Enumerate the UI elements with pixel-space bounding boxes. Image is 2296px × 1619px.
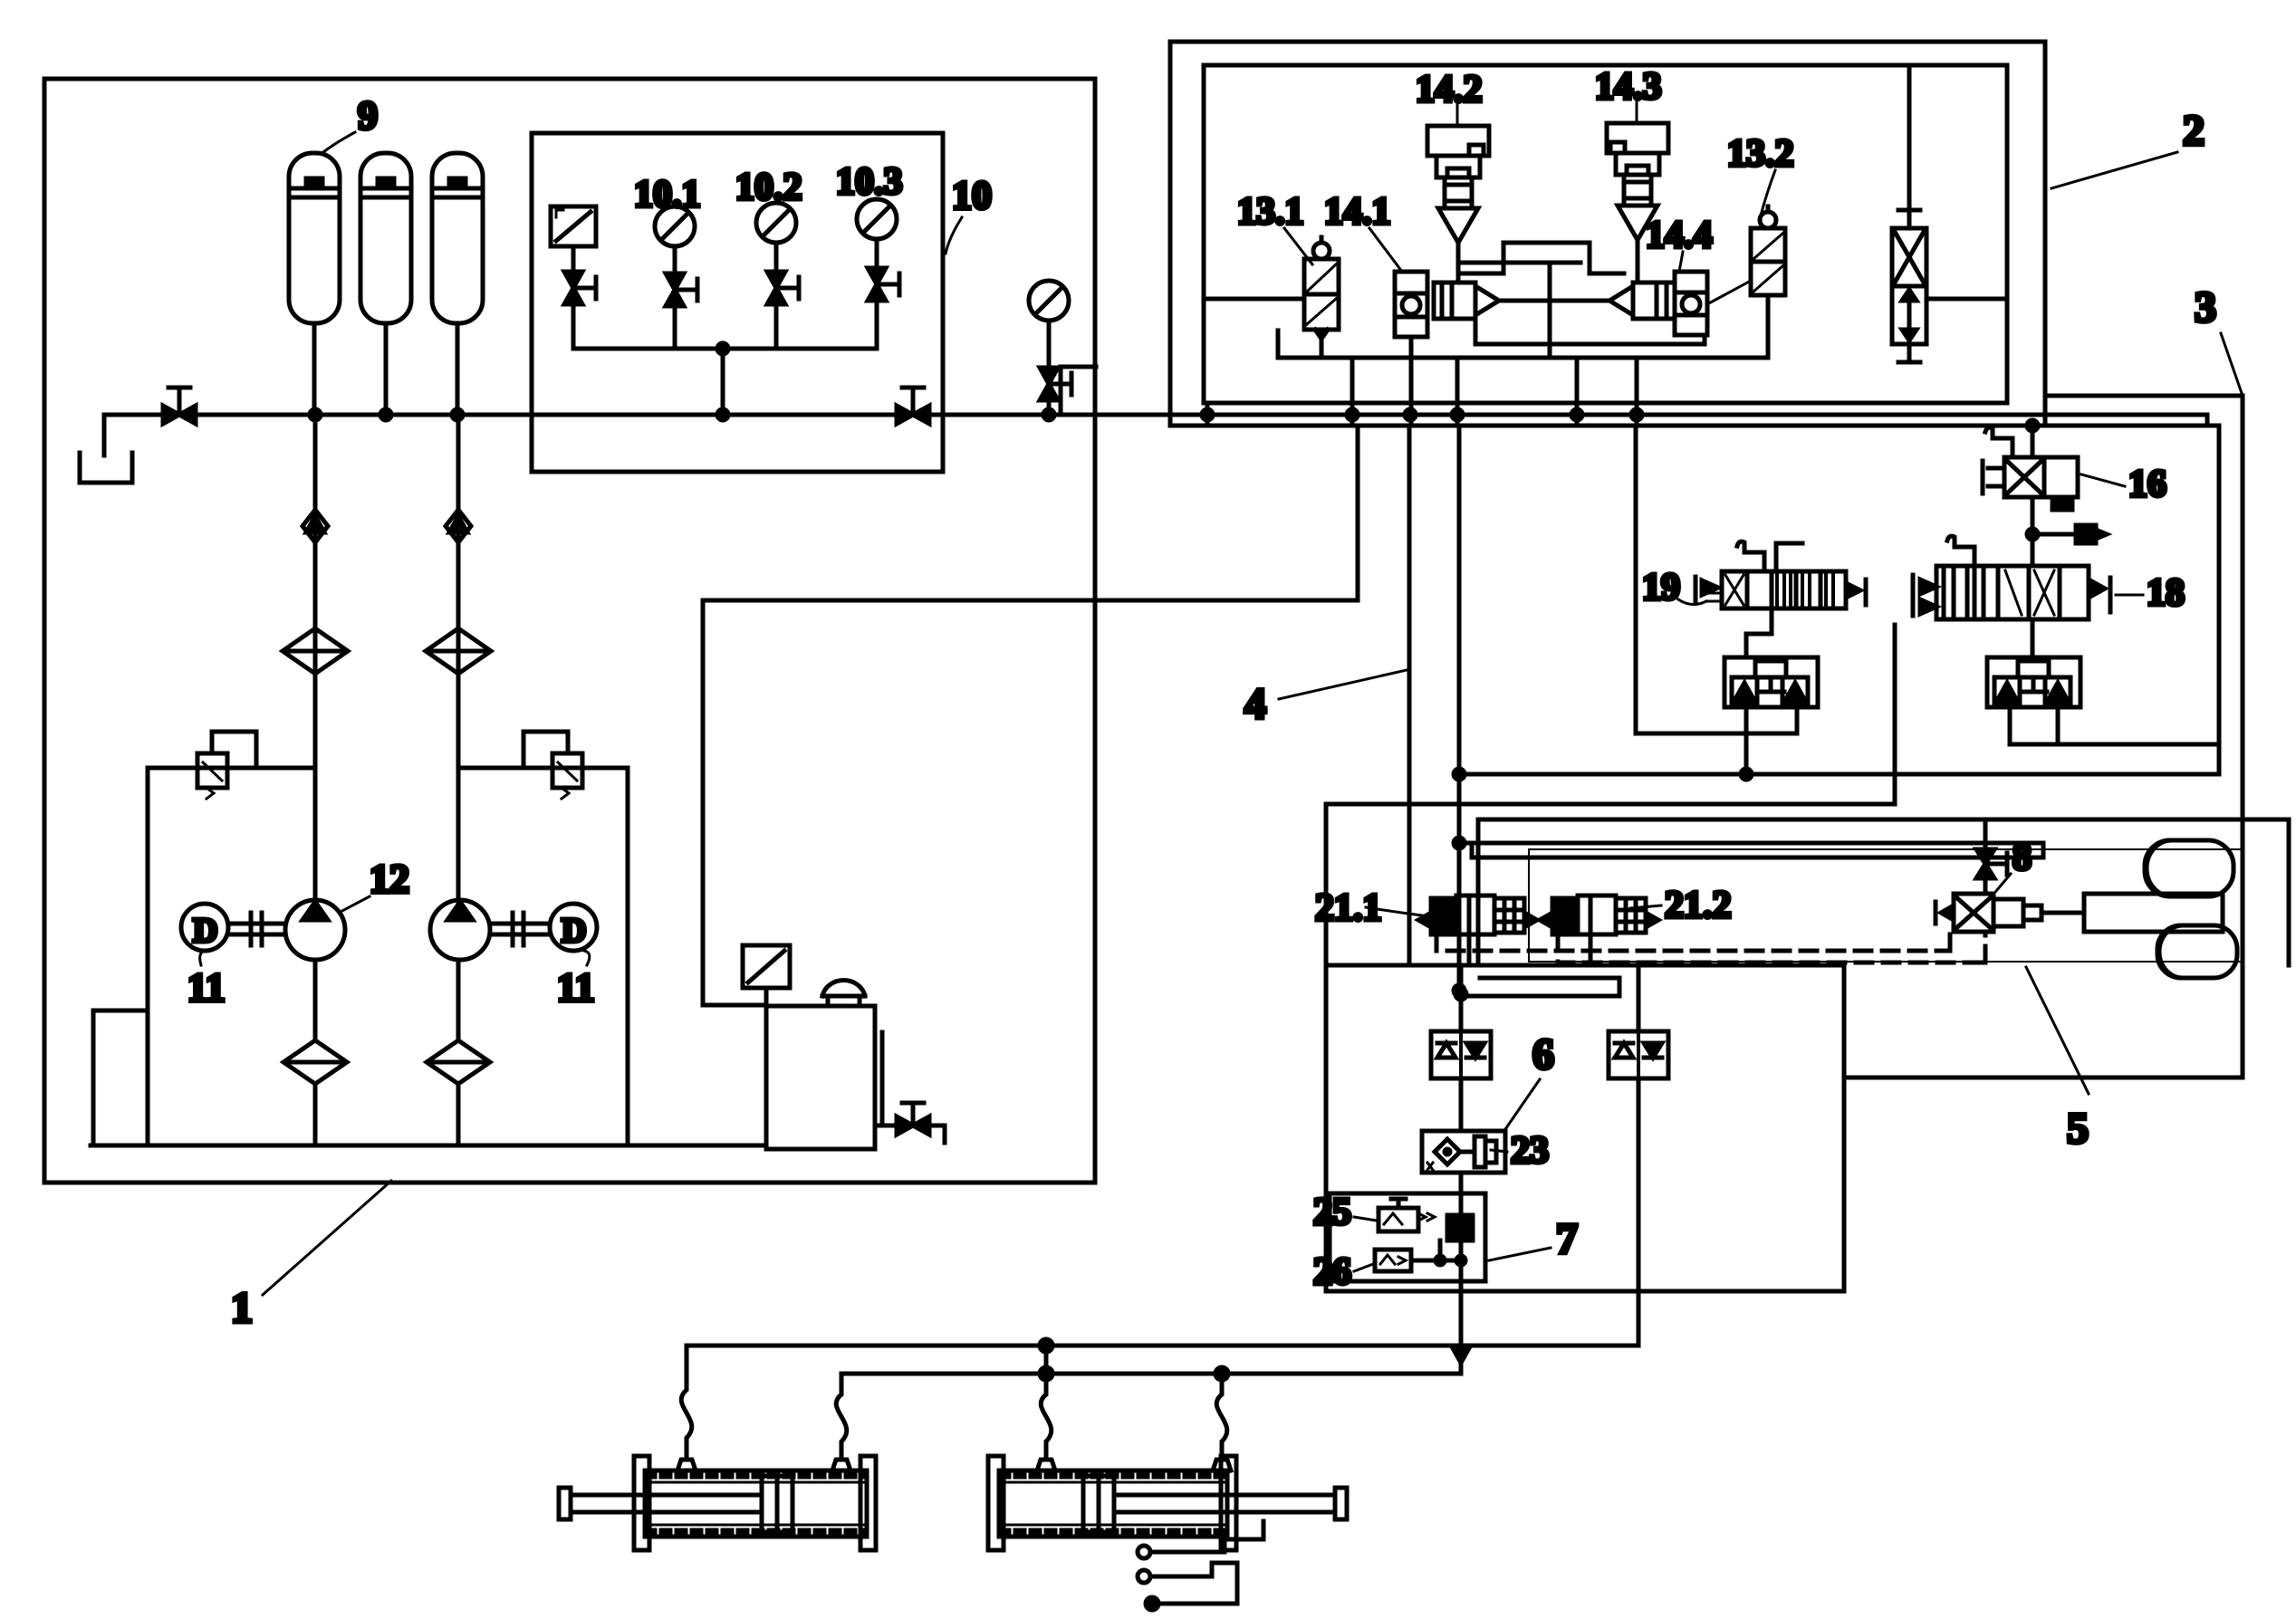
svg-text:10: 10 <box>952 173 992 217</box>
label 7 <box>1489 1215 1578 1263</box>
accumulator A2 <box>360 153 411 415</box>
pump riser left <box>313 415 318 901</box>
right cylinder piston <box>1083 1476 1114 1532</box>
accumulator A1 <box>289 153 340 415</box>
secondary bus line / box2 bottom <box>1170 424 2219 428</box>
right cylinder rod <box>1114 1488 1347 1519</box>
label 4 <box>1244 670 1407 728</box>
relief valve right <box>524 732 582 799</box>
svg-text:25: 25 <box>1313 1192 1351 1233</box>
valve 16 pilot hook <box>1985 427 2013 457</box>
center cartridge right <box>1587 283 1675 319</box>
svg-text:6: 6 <box>1532 1030 1554 1078</box>
coupling left <box>228 913 285 945</box>
standalone gauge valve <box>1040 368 1071 420</box>
lock valve of cylinder <box>1936 894 2041 932</box>
pressure filter right <box>426 628 491 674</box>
suction line left <box>313 960 318 1040</box>
svg-text:19: 19 <box>1642 567 1680 608</box>
center link pipes <box>1458 263 1638 358</box>
cartridge valve 14.1 <box>1395 272 1427 426</box>
junction dots on cylinder buses <box>1040 1339 1228 1380</box>
valve 25 <box>1379 1199 1435 1231</box>
box 5 (axle-valve box) <box>1478 819 2289 965</box>
tank return line <box>91 1144 766 1148</box>
suction drop right <box>456 1084 461 1145</box>
valve 19 top pipe <box>1776 543 1802 571</box>
drop below pair to box6 <box>1459 1083 1464 1131</box>
motor M-left <box>181 904 228 951</box>
label 9 <box>323 93 378 152</box>
coupling right <box>490 913 550 945</box>
gauge 10.2 valve <box>767 272 799 349</box>
drain funnel <box>80 453 132 483</box>
gauge 10.1 valve <box>666 273 697 349</box>
box 1 (pump station enclosure) <box>44 79 1095 1183</box>
relief valve left <box>197 732 256 799</box>
left cylinder ports <box>677 1460 850 1471</box>
left cylinder flanges <box>634 1456 876 1550</box>
label 14.1 <box>1324 191 1402 272</box>
svg-text:5: 5 <box>2067 1105 2089 1153</box>
label 26 <box>1313 1251 1373 1293</box>
hose 4 <box>1216 1374 1227 1460</box>
feed drop line 4 vertical <box>1407 426 1412 965</box>
lower link pipes in box3 <box>1454 838 2043 857</box>
valve 18 <box>1913 566 2110 619</box>
valve 19 stem <box>1746 608 1772 657</box>
main pressure bus <box>104 413 2207 417</box>
measuring plug <box>2032 525 2107 543</box>
label 3 <box>2195 283 2243 396</box>
svg-text:9: 9 <box>358 93 378 138</box>
valve 19 <box>1696 571 1866 608</box>
check valve on riser left <box>303 510 328 542</box>
label 18 <box>2116 572 2185 614</box>
hose 1 <box>681 1346 692 1460</box>
left cylinder rod <box>559 1488 762 1519</box>
center cartridge left <box>1434 283 1522 319</box>
solenoid valve 13.2 <box>1751 206 1785 358</box>
suction drop left <box>313 1084 318 1145</box>
valve 18 stem <box>2031 619 2035 657</box>
cartridge valve 14.3 <box>1607 123 1668 283</box>
svg-text:14.3: 14.3 <box>1595 66 1662 108</box>
svg-text:23: 23 <box>1511 1130 1549 1172</box>
box 2 outer (valve manifold enclosure) <box>1170 42 2045 426</box>
left pump unit frame <box>148 768 315 1145</box>
drop with arrow from box7 to cylinder bus B <box>1452 1281 1470 1374</box>
label 16 <box>2081 464 2166 505</box>
valve 16 <box>1983 457 2078 510</box>
solenoid valve 21.2 <box>1540 896 1658 934</box>
suction filter left <box>283 1040 347 1084</box>
drop from valve block to cylinder bus A <box>1637 1291 1641 1346</box>
label 11 left <box>187 951 226 1010</box>
line 6 to 7 <box>1459 1173 1464 1193</box>
stems 21.1 / 21.2 <box>1469 934 1590 965</box>
label 25 <box>1313 1192 1377 1233</box>
label 8 <box>1996 837 2032 891</box>
vertical through 21.2 branch <box>1637 965 1641 1027</box>
hose 3 <box>1041 1346 1052 1460</box>
suction line right <box>456 960 461 1040</box>
standalone gauge <box>1029 281 1069 368</box>
oil tank <box>766 1006 882 1149</box>
pump P-right <box>430 900 490 960</box>
svg-text:13.2: 13.2 <box>1727 133 1794 175</box>
left cylinder body <box>645 1471 867 1537</box>
bus shutoff valve at panel outlet <box>897 388 929 424</box>
drop from 21.1 to check pair <box>1455 965 1619 1031</box>
svg-text:D: D <box>193 912 217 950</box>
check-throttle pair left <box>1431 1027 1491 1083</box>
svg-text:7: 7 <box>1556 1215 1578 1263</box>
left cylinder piston <box>762 1476 793 1532</box>
level sensor <box>724 945 790 1143</box>
shutoff valve 8 <box>1976 819 2007 894</box>
svg-text:11: 11 <box>557 965 595 1010</box>
pump riser right <box>456 415 461 901</box>
breather cap <box>822 980 865 1006</box>
pressure filter left <box>283 628 348 674</box>
check-throttle pair right <box>1609 1027 1668 1083</box>
right pump unit frame <box>460 768 628 1145</box>
cartridge valve 14.2 <box>1427 126 1489 283</box>
label 2 <box>2051 107 2205 188</box>
label 5 <box>2026 967 2089 1153</box>
label 10 <box>946 173 992 254</box>
suction filter right <box>427 1040 490 1084</box>
drop below right pair <box>1637 1083 1641 1291</box>
box 10 (gauge panel enclosure) <box>532 133 943 472</box>
shut-off valve V-left on bus <box>163 388 196 424</box>
lower big box (valve block 6/7 enclosure) <box>1326 965 1844 1291</box>
svg-text:10.3: 10.3 <box>836 161 903 203</box>
valve 19 pilot hook <box>1737 541 1764 571</box>
label 11 right <box>557 951 595 1010</box>
svg-text:D: D <box>562 912 586 950</box>
svg-text:12: 12 <box>370 857 409 901</box>
svg-text:16: 16 <box>2128 464 2166 505</box>
label 14.4 <box>1646 215 1713 272</box>
pressure transmitter <box>551 206 596 272</box>
box 3 right edge <box>1844 396 2243 1078</box>
svg-text:2: 2 <box>2183 107 2205 155</box>
right block pipes <box>2010 707 2219 744</box>
gauge 10.2 <box>735 167 802 272</box>
gauge 10.3 <box>836 161 903 268</box>
right cylinder ports <box>1037 1460 1231 1471</box>
manifold channel pipes <box>1458 243 1705 344</box>
box 6 <box>1422 1131 1505 1173</box>
transmitter shutoff valve <box>564 272 596 349</box>
gauge 10.3 valve <box>868 268 899 349</box>
solenoid valve 13.1 <box>1304 237 1339 358</box>
label 6 <box>1503 1030 1554 1132</box>
label 13.2 <box>1727 133 1794 216</box>
valve 26 <box>1375 1241 1465 1281</box>
box 7 <box>1330 1193 1485 1281</box>
right cylinder flanges <box>988 1456 1236 1550</box>
pilot pipes to check blocks <box>1326 426 2219 965</box>
svg-text:13.1: 13.1 <box>1237 191 1304 233</box>
check block right <box>1987 657 2080 707</box>
motor M-right <box>550 904 597 951</box>
check valve on riser right <box>446 510 471 542</box>
label 14.2 <box>1416 69 1483 126</box>
return pipe from manifold <box>703 426 1358 1005</box>
valve 16 feed <box>2031 426 2035 457</box>
box 3 inner right edge <box>2217 426 2222 770</box>
svg-text:11: 11 <box>187 965 226 1010</box>
label 12 <box>339 857 409 913</box>
cylinder bus A <box>687 1344 1638 1348</box>
return riser left <box>93 1011 148 1145</box>
drain valve on tank <box>875 1103 945 1143</box>
svg-text:8: 8 <box>2013 837 2032 878</box>
bottom-left step pipe <box>1061 367 1096 415</box>
svg-text:18: 18 <box>2147 572 2185 614</box>
label 1 <box>231 1181 391 1332</box>
right cylinder body <box>999 1471 1227 1537</box>
pilot dashed lines <box>1436 932 1985 963</box>
label 23 <box>1491 1130 1549 1172</box>
svg-text:14.2: 14.2 <box>1416 69 1483 110</box>
plug cylinder actuator <box>2041 840 2237 978</box>
accumulator bus junction dots <box>310 409 463 420</box>
line 16 to 18 <box>2027 497 2038 566</box>
box2 left pipes <box>1202 299 1304 426</box>
solenoid valve 21.1 <box>1418 896 1537 934</box>
svg-text:26: 26 <box>1313 1251 1351 1293</box>
drain stub pipe <box>102 415 107 455</box>
svg-text:3: 3 <box>2195 283 2216 331</box>
pilot valve right of box2 <box>1892 67 2007 362</box>
svg-text:14.4: 14.4 <box>1646 215 1713 256</box>
check block left <box>1724 657 1818 707</box>
valve 18 pilot hook <box>1947 536 1974 566</box>
pump P-left <box>285 900 345 960</box>
cylinder bus B <box>841 1372 1461 1376</box>
box2 bottom manifold <box>1278 331 1768 426</box>
svg-text:21.2: 21.2 <box>1665 885 1732 926</box>
second drop vertical <box>1454 426 1465 996</box>
bus right corner link <box>2205 415 2210 426</box>
box 3 top edge segment <box>2049 394 2243 398</box>
gauge 10.1 <box>634 174 701 273</box>
label 13.1 <box>1237 191 1312 264</box>
svg-text:14.1: 14.1 <box>1324 191 1391 233</box>
svg-text:1: 1 <box>231 1284 253 1332</box>
hose 2 <box>836 1374 847 1460</box>
accumulator A3 <box>432 153 483 415</box>
filter unit 6 internals <box>1427 1136 1496 1170</box>
svg-text:4: 4 <box>1244 680 1266 728</box>
box 2 inner <box>1204 65 2007 403</box>
cartridge valve 14.4 <box>1675 272 1751 335</box>
label 21.1 <box>1315 887 1429 929</box>
label 19 <box>1642 567 1722 608</box>
label 14.3 <box>1595 66 1662 123</box>
label 21.2 <box>1630 885 1732 926</box>
box 5 inner thin rect <box>1529 849 2242 962</box>
gauge header <box>573 343 877 420</box>
pressure switch block 24 <box>1447 1193 1473 1241</box>
position sensor taps <box>1138 1521 1263 1610</box>
